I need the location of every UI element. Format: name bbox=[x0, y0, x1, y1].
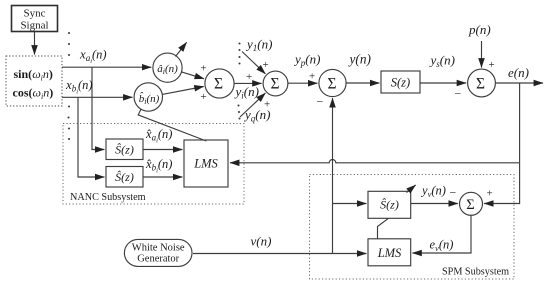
wire: p(n) into sigma4 bbox=[481, 41, 483, 68]
svg-text:v(n): v(n) bbox=[251, 234, 272, 249]
svg-text:NANC Subsystem: NANC Subsystem bbox=[70, 192, 146, 203]
wire: x_a tap down to S-hat filter 1 bbox=[92, 67, 104, 149]
coefficient circle b-hat bbox=[134, 83, 162, 111]
wire: x_a(n) from oscillator to a-hat circle bbox=[62, 66, 151, 68]
coefficient circle a-hat bbox=[153, 53, 182, 82]
svg-text:−: − bbox=[455, 87, 462, 101]
adder sigma1 bbox=[205, 69, 234, 98]
adder sigma2 bbox=[263, 71, 288, 96]
svg-text:Σ: Σ bbox=[327, 75, 336, 92]
filter block S-hat(z) 1 bbox=[106, 139, 143, 160]
svg-text:Sync: Sync bbox=[24, 8, 46, 20]
wire: sigma1 to sigma2, signal y_i(n) bbox=[234, 82, 262, 84]
svg-text:cos(ωin): cos(ωin) bbox=[13, 86, 54, 102]
wire: e(n) down to SPM sigma5 bbox=[484, 163, 519, 204]
wire: y_q(n) into sigma2 bbox=[240, 93, 265, 117]
svg-text:Ŝ(z): Ŝ(z) bbox=[115, 170, 134, 184]
wire: e(n) output bbox=[495, 82, 543, 84]
svg-text:LMS: LMS bbox=[377, 246, 402, 260]
block: SPM Subsystem dotted box bbox=[310, 175, 515, 280]
adder sigma5 bbox=[460, 192, 483, 215]
svg-text:Σ: Σ bbox=[270, 75, 279, 92]
svg-text:yv(n): yv(n) bbox=[420, 184, 446, 200]
svg-text:Σ: Σ bbox=[466, 197, 474, 213]
svg-text:S(z): S(z) bbox=[391, 75, 410, 89]
block: sin/cos oscillator dotted box bbox=[6, 56, 62, 106]
block: NANC Subsystem dotted box bbox=[63, 124, 244, 205]
svg-text:SPM Subsystem: SPM Subsystem bbox=[442, 267, 509, 278]
block: White Noise Generator ellipse bbox=[124, 239, 192, 266]
svg-text:+: + bbox=[263, 59, 269, 71]
wire: sigma3 to S(z), signal y(n) bbox=[346, 82, 379, 84]
wire: sigma5 down to LMS SPM, signal e_v(n) bbox=[412, 215, 471, 253]
svg-text:+: + bbox=[264, 99, 270, 111]
wire: Sync Signal to oscillator box bbox=[34, 32, 36, 55]
block: Sync Signal box bbox=[12, 6, 58, 32]
wire: xhat_a to LMS bbox=[143, 149, 182, 151]
svg-text:Σ: Σ bbox=[214, 76, 223, 93]
svg-text:+: + bbox=[246, 71, 252, 83]
wire: S-hat SPM to LMS SPM connector bbox=[378, 218, 389, 239]
svg-text:Generator: Generator bbox=[137, 254, 179, 265]
wire: xhat_b to LMS bbox=[143, 176, 182, 178]
svg-text:Ŝ(z): Ŝ(z) bbox=[380, 198, 399, 212]
svg-text:LMS: LMS bbox=[193, 157, 218, 171]
svg-text:x̂bi(n): x̂bi(n) bbox=[145, 157, 172, 175]
svg-text:+: + bbox=[309, 71, 315, 83]
svg-text:p(n): p(n) bbox=[468, 22, 491, 37]
svg-text:yi(n): yi(n) bbox=[234, 84, 259, 101]
wire: a-hat to sigma1 bbox=[182, 72, 205, 79]
filter block S-hat(z) 2 bbox=[106, 167, 143, 188]
block: S-hat(z) SPM bbox=[368, 191, 411, 218]
svg-text:Σ: Σ bbox=[476, 75, 485, 92]
svg-text:ev(n): ev(n) bbox=[430, 238, 454, 254]
wire: x_b(n) from oscillator to b-hat circle bbox=[62, 96, 133, 98]
block: LMS (NANC) bbox=[184, 140, 228, 187]
adder sigma3 bbox=[319, 69, 346, 96]
svg-text:sin(ωin): sin(ωin) bbox=[14, 67, 53, 83]
svg-text:e(n): e(n) bbox=[508, 65, 529, 80]
svg-text:+: + bbox=[200, 62, 206, 74]
svg-text:Signal: Signal bbox=[20, 20, 48, 32]
adder sigma4 bbox=[468, 69, 496, 97]
svg-text:Ŝ(z): Ŝ(z) bbox=[115, 143, 134, 157]
wire: b-hat to sigma1 bbox=[162, 87, 204, 95]
wire: y_1(n) into sigma2 bbox=[242, 52, 265, 74]
wire: error feedback to NANC LMS with hop bbox=[230, 160, 520, 163]
svg-text:−: − bbox=[317, 95, 324, 109]
block: secondary path S(z) bbox=[381, 71, 420, 93]
svg-text:xai(n): xai(n) bbox=[79, 48, 107, 66]
ellipsis dots left column bbox=[67, 32, 240, 140]
wire: e(n) drop down bbox=[519, 83, 521, 163]
svg-text:−: − bbox=[450, 186, 457, 200]
wire: S-hat(z) SPM to sigma5, signal y_v(n) bbox=[411, 203, 458, 205]
svg-text:White Noise: White Noise bbox=[132, 242, 185, 253]
svg-text:yp(n): yp(n) bbox=[293, 52, 320, 69]
svg-text:x̂ai(n): x̂ai(n) bbox=[145, 127, 172, 145]
svg-text:xbi(n): xbi(n) bbox=[65, 78, 93, 96]
svg-text:+: + bbox=[200, 91, 206, 103]
svg-text:y1(n): y1(n) bbox=[245, 37, 272, 54]
wire: sigma2 to sigma3, signal y_p(n) bbox=[288, 82, 318, 84]
block: LMS SPM bbox=[368, 239, 411, 266]
svg-text:âi(n): âi(n) bbox=[157, 63, 178, 76]
svg-text:+: + bbox=[489, 59, 495, 71]
wire: v(n) up to sigma3 bbox=[332, 98, 334, 253]
adaptation arrow on a-hat bbox=[176, 42, 187, 56]
svg-text:ys(n): ys(n) bbox=[429, 53, 455, 70]
wire: LMS update line to b-hat bbox=[138, 110, 206, 142]
wire: v(n) from white noise generator to LMS SPM bbox=[193, 253, 366, 255]
svg-text:b̂i(n): b̂i(n) bbox=[139, 92, 160, 106]
svg-text:y(n): y(n) bbox=[348, 52, 372, 67]
adaptation arrow on S-hat(z) SPM bbox=[407, 185, 416, 193]
ellipsis dots right column bbox=[238, 42, 240, 44]
svg-text:+: + bbox=[487, 188, 493, 200]
wire: v(n) branch into S-hat SPM bbox=[333, 203, 367, 205]
wire: S(z) to sigma4, signal y_s(n) bbox=[420, 82, 466, 84]
wire: x_b tap down to S-hat filter 2 bbox=[78, 98, 104, 178]
